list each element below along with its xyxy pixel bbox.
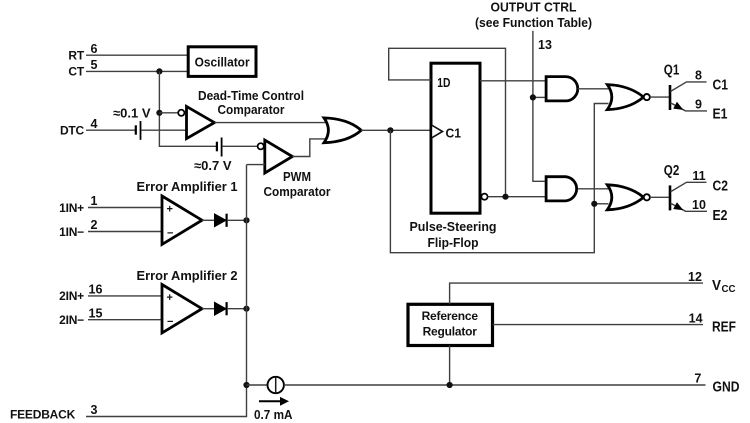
flip-flop box U1 (431, 63, 480, 213)
svg-text:OUTPUT CTRL: OUTPUT CTRL (491, 0, 577, 15)
AND gate 2 (546, 177, 577, 201)
NOR gate 1 (607, 85, 650, 110)
svg-text:1IN−: 1IN− (59, 225, 84, 239)
svg-text:14: 14 (689, 311, 703, 325)
wire 2IN+ pin 16 (88, 295, 162, 297)
AND gate 1 (546, 77, 578, 101)
oscillator box (188, 47, 256, 77)
wire regulator to REF pin 14 (493, 324, 704, 326)
OR gate (324, 118, 361, 143)
pin DTC label (60, 117, 98, 138)
svg-text:Q2: Q2 (664, 163, 680, 179)
diode D1 (202, 214, 247, 227)
label PWM Comparator (264, 169, 331, 199)
svg-text:Reference: Reference (422, 309, 479, 323)
wire stub to AND1 (533, 96, 546, 98)
wire RT pin 6 (86, 54, 188, 56)
label Dead-Time Control Comparator (198, 88, 304, 117)
transistor Q2 (670, 182, 707, 211)
wire PWM comparator output to OR gate (292, 139, 327, 157)
node EA2 diode junction (243, 306, 249, 312)
node NOR2 input junction (591, 201, 597, 207)
node EA1 diode junction (243, 217, 249, 223)
svg-text:CC: CC (722, 284, 736, 295)
wire AND2 output (578, 188, 610, 190)
wire Q output to AND1 (480, 80, 546, 82)
svg-text:6: 6 (91, 42, 98, 56)
svg-text:12: 12 (688, 270, 702, 284)
svg-text:C1: C1 (446, 126, 462, 141)
op-amp dead-time comparator (187, 106, 215, 138)
pin FEEDBACK label (10, 403, 98, 421)
svg-text:RT: RT (68, 49, 84, 63)
pin VCC label (712, 278, 736, 295)
svg-text:1: 1 (91, 194, 98, 208)
wire blanking loop down and to NOR gates (390, 104, 608, 253)
wire CT vertical to 0.7V row (158, 71, 160, 147)
op-amp PWM comparator (265, 140, 293, 173)
svg-text:15: 15 (89, 306, 103, 320)
svg-text:3: 3 (91, 403, 98, 417)
reference regulator box (408, 304, 493, 345)
svg-text:+: + (167, 292, 173, 304)
svg-text:5: 5 (91, 58, 98, 72)
wire CT pin 5 (86, 70, 188, 72)
wire battery to comparator (142, 129, 187, 131)
svg-text:GND: GND (713, 380, 740, 396)
svg-text:Pulse-Steering: Pulse-Steering (410, 219, 497, 234)
node 0.1V junction (156, 110, 162, 116)
svg-text:Oscillator: Oscillator (195, 55, 250, 70)
svg-text:Q1: Q1 (664, 63, 680, 79)
svg-text:Regulator: Regulator (423, 325, 478, 339)
bubble Q-bar output (481, 194, 487, 200)
pin CT label (68, 58, 97, 79)
wire 1IN- pin 2 (88, 231, 162, 233)
wire AND1 output (578, 88, 610, 90)
svg-text:8: 8 (695, 69, 702, 83)
node Q-bar loop junction (502, 194, 508, 200)
svg-text:Comparator: Comparator (218, 102, 285, 117)
svg-text:PWM: PWM (283, 169, 311, 184)
label Pulse-Steering Flip-Flop (410, 219, 497, 250)
svg-text:(see Function Table): (see Function Table) (475, 15, 592, 30)
svg-text:+: + (167, 204, 173, 216)
pin RT label (68, 42, 97, 63)
wire GND row (284, 384, 706, 386)
svg-text:≈0.1 V: ≈0.1 V (113, 106, 151, 121)
wire OR output to flip-flop C1 (361, 129, 431, 131)
svg-text:E1: E1 (713, 107, 728, 123)
svg-text:7: 7 (694, 372, 701, 386)
svg-text:4: 4 (91, 117, 98, 131)
svg-text:CT: CT (68, 65, 84, 79)
bubble DTC comparator input (178, 110, 184, 116)
wire regulator to GND row (449, 346, 451, 386)
wire 0.7V row (159, 145, 216, 147)
svg-text:2IN+: 2IN+ (59, 289, 84, 303)
svg-text:13: 13 (538, 38, 552, 52)
wire NOR1 output to Q1 base (650, 96, 670, 98)
transistor Q1 (670, 82, 707, 111)
svg-text:1D: 1D (437, 75, 450, 90)
node OR output junction (387, 127, 393, 133)
wire regulator to Vcc pin 12 (450, 283, 703, 304)
wire 1D feedback loop (389, 48, 506, 196)
pin 2IN- label (59, 306, 102, 327)
current source 0.7mA (247, 377, 284, 393)
wire Q-bar to AND2 (488, 196, 546, 198)
node CT junction (156, 68, 162, 74)
svg-text:1IN+: 1IN+ (59, 201, 84, 215)
svg-text:Comparator: Comparator (264, 184, 331, 199)
svg-text:0.7 mA: 0.7 mA (254, 407, 293, 422)
label OUTPUT CTRL (475, 0, 592, 30)
svg-text:2: 2 (91, 218, 98, 232)
battery 0.1V (136, 121, 141, 140)
svg-text:11: 11 (692, 169, 705, 183)
arrow 0.7mA (259, 397, 289, 406)
bubble PWM comparator input (258, 143, 264, 149)
svg-text:≈0.7 V: ≈0.7 V (194, 158, 232, 173)
wire PWM lower input stub (247, 164, 265, 166)
op-amp error amplifier 1 (162, 196, 202, 244)
wire feedback bus vertical (86, 165, 247, 417)
svg-text:FEEDBACK: FEEDBACK (10, 408, 76, 422)
diode D2 (202, 302, 247, 315)
svg-text:E2: E2 (713, 208, 728, 224)
wire stub to DTC comparator bubble (159, 112, 178, 114)
pin 1IN- label (59, 218, 97, 239)
pin 2IN+ label (59, 283, 102, 304)
svg-text:2IN−: 2IN− (59, 313, 84, 327)
svg-text:DTC: DTC (60, 124, 85, 138)
NOR gate 2 (607, 185, 650, 210)
wire 1IN+ pin 1 (88, 207, 162, 209)
wire DTC pin 4 (86, 129, 135, 131)
svg-text:16: 16 (89, 283, 103, 297)
svg-text:C1: C1 (713, 78, 729, 94)
wire 2IN- pin 15 (88, 319, 162, 321)
svg-text:REF: REF (712, 320, 736, 336)
node OUTPUT CTRL junction (530, 94, 536, 100)
wire NOR2 lower input stub (594, 203, 608, 205)
svg-text:−: − (167, 228, 173, 240)
svg-text:Flip-Flop: Flip-Flop (428, 235, 479, 250)
svg-text:−: − (167, 316, 173, 328)
svg-text:C2: C2 (713, 179, 729, 195)
node regulator GND junction (447, 382, 453, 388)
svg-text:V: V (712, 278, 721, 294)
pin 1IN+ label (59, 194, 97, 215)
clock triangle C1 (432, 125, 461, 140)
svg-text:Dead-Time Control: Dead-Time Control (198, 88, 304, 103)
svg-text:Error Amplifier 1: Error Amplifier 1 (137, 179, 238, 194)
wire NOR2 output to Q2 base (650, 196, 670, 198)
wire battery to PWM bubble (223, 145, 257, 147)
wire OUTPUT CTRL pin 13 vertical (533, 31, 546, 182)
wire DTC comparator output to OR gate (214, 122, 327, 124)
svg-text:9: 9 (695, 98, 702, 112)
op-amp error amplifier 2 (162, 285, 202, 333)
svg-text:Error Amplifier 2: Error Amplifier 2 (137, 268, 238, 283)
node feedback GND-row junction (243, 382, 249, 388)
battery 0.7V (217, 138, 222, 157)
svg-text:10: 10 (692, 198, 706, 212)
